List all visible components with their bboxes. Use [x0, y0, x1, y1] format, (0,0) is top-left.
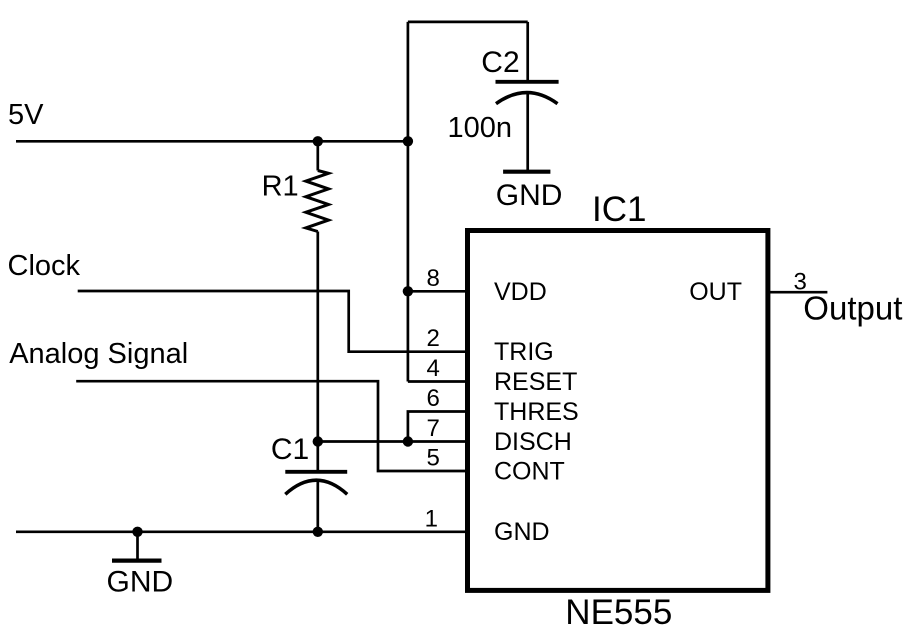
svg-text:R1: R1: [262, 170, 299, 202]
wire top horizontal to C2: [408, 21, 528, 24]
svg-text:VDD: VDD: [494, 278, 547, 306]
wire DISCH pin 7 line: [318, 440, 466, 443]
svg-text:5V: 5V: [8, 99, 44, 131]
svg-text:1: 1: [425, 505, 438, 532]
svg-text:6: 6: [426, 385, 439, 412]
junction node C1/ground bus: [313, 527, 323, 537]
svg-text:IC1: IC1: [592, 190, 646, 229]
svg-text:8: 8: [426, 265, 439, 292]
svg-text:TRIG: TRIG: [494, 338, 554, 366]
wire Analog Signal to CONT pin 5: [76, 381, 466, 471]
wire ground bus to GND pin 1: [16, 530, 466, 533]
svg-text:100n: 100n: [448, 112, 513, 144]
junction node 5V/R1: [313, 136, 323, 146]
svg-text:C1: C1: [271, 433, 309, 466]
svg-text:GND: GND: [107, 566, 174, 599]
wire R1 bottom lead down to C1 node: [316, 232, 319, 442]
wire Clock to TRIG pin 2: [78, 291, 466, 352]
svg-text:CONT: CONT: [494, 458, 565, 486]
ground symbol left: [112, 558, 162, 562]
wire VDD net vertical (5V to RESET): [407, 22, 410, 382]
wire R1 top lead: [316, 141, 319, 170]
svg-text:3: 3: [794, 269, 807, 296]
svg-text:7: 7: [426, 415, 439, 442]
junction node pin 8 tap: [403, 286, 413, 296]
svg-text:4: 4: [426, 355, 439, 382]
svg-text:C2: C2: [481, 46, 519, 79]
wire 5V rail: [16, 140, 408, 143]
resistor R1: [306, 171, 329, 232]
wire C2 top lead: [526, 22, 529, 81]
wire C1 top lead: [316, 442, 319, 471]
wire C1 bottom lead: [316, 481, 319, 532]
wire OUT pin 3 stub: [768, 291, 827, 294]
svg-text:GND: GND: [496, 179, 563, 212]
IC IC1 NE555 body: [468, 231, 768, 591]
wire RESET pin 4 stub: [408, 380, 466, 383]
svg-text:Clock: Clock: [8, 250, 81, 282]
junction node C1/DISCH: [313, 436, 323, 446]
svg-text:5: 5: [426, 445, 439, 472]
junction node 5V/VDD vertical: [403, 136, 413, 146]
wire ground symbol left lead: [136, 532, 139, 559]
wire VDD pin 8 stub: [408, 290, 466, 293]
junction node ground tap: [132, 527, 142, 537]
svg-text:Output: Output: [803, 289, 902, 326]
svg-text:THRES: THRES: [494, 398, 579, 426]
svg-text:Analog Signal: Analog Signal: [9, 338, 188, 370]
svg-text:GND: GND: [494, 518, 550, 546]
wire C2 bottom lead: [526, 94, 529, 171]
svg-text:RESET: RESET: [494, 368, 577, 396]
svg-text:DISCH: DISCH: [494, 428, 572, 456]
svg-text:2: 2: [426, 325, 439, 352]
wire THRES pin 6 stub and link to DISCH: [408, 412, 466, 442]
junction node THRES/DISCH: [403, 436, 413, 446]
capacitor C2: [496, 82, 559, 104]
svg-text:OUT: OUT: [689, 278, 742, 306]
capacitor C1: [285, 472, 347, 495]
ground symbol under C2: [503, 170, 550, 174]
svg-text:NE555: NE555: [565, 593, 672, 632]
